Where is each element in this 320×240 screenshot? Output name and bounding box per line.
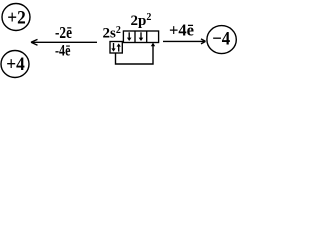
svg-text:+4: +4: [6, 54, 25, 75]
left arrow: [31, 39, 97, 45]
electron down arrow in 2s box: [111, 43, 115, 52]
electron down arrow in 2p box 2: [139, 32, 144, 41]
oxidation state circle +2: [2, 4, 30, 31]
svg-text:+2: +2: [7, 7, 26, 28]
svg-text:−4: −4: [212, 28, 230, 49]
electron promotion wire from 2s box to empty 2p box: [116, 43, 156, 64]
svg-text:-4ē: -4ē: [55, 43, 71, 60]
oxidation state circle -4: [207, 26, 236, 54]
svg-text:-2ē: -2ē: [55, 23, 72, 42]
right arrow: [163, 39, 206, 44]
oxidation state circle +4: [1, 51, 29, 78]
2s orbital box: [110, 42, 122, 54]
2p orbital boxes (three cells): [123, 31, 158, 43]
electron up arrow in 2s box: [117, 43, 121, 51]
svg-text:+4ē: +4ē: [169, 21, 194, 40]
electron down arrow in 2p box 1: [127, 32, 132, 41]
